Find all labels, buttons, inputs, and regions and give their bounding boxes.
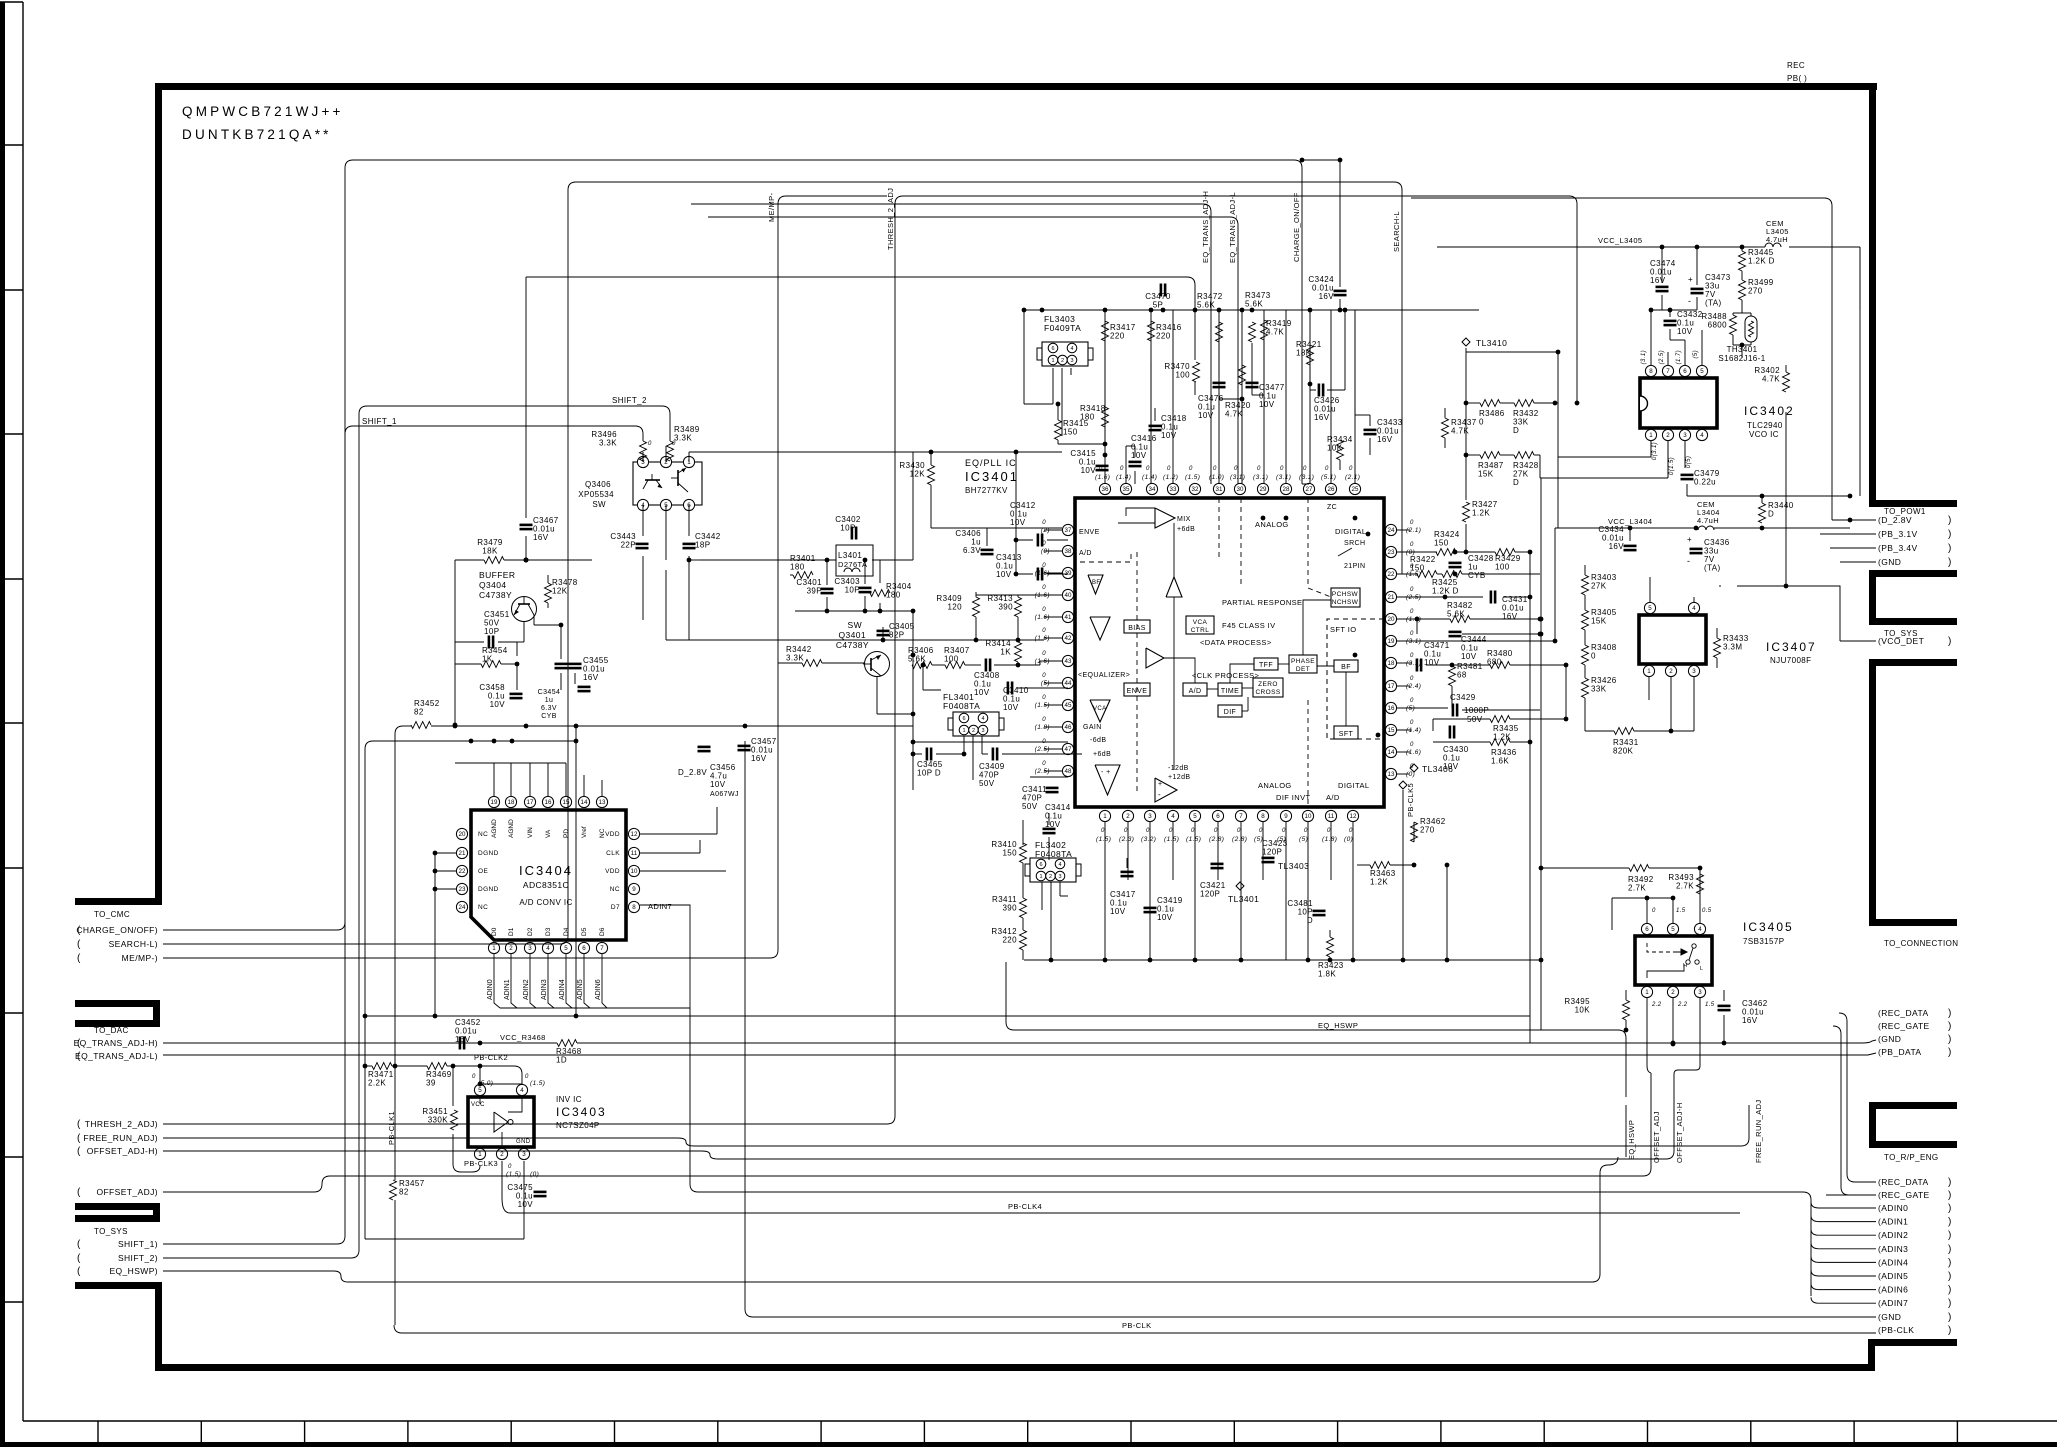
svg-text:NJU7008F: NJU7008F: [1770, 656, 1811, 665]
svg-text:4: 4: [520, 1087, 524, 1094]
svg-text:0: 0: [1282, 828, 1286, 834]
ruler left tick 7: [0, 1012, 23, 1014]
svg-text:5: 5: [1648, 605, 1652, 612]
wire c3408 to pin43: [1002, 664, 1040, 666]
wire c3414 row: [1048, 813, 1050, 825]
svg-text:21PIN: 21PIN: [1344, 563, 1365, 570]
wire IC3404 right: [640, 833, 717, 835]
svg-text:TO_DAC: TO_DAC: [94, 1026, 129, 1035]
svg-text:(: (: [77, 939, 81, 950]
wire r3403 taps: [1585, 611, 1620, 613]
svg-text:41: 41: [1065, 614, 1072, 621]
pin 1 IC3405 bottom: [1641, 986, 1652, 997]
svg-text:BF: BF: [1341, 664, 1351, 671]
wire c3465 row: [913, 753, 922, 755]
svg-text:6: 6: [1683, 368, 1687, 375]
inductor L3404: [1698, 526, 1714, 530]
wire r3415 col: [1057, 404, 1059, 420]
svg-text:1: 1: [1051, 358, 1054, 364]
svg-text:0: 0: [1410, 653, 1414, 659]
IC3401 dashed v4: [1307, 498, 1309, 588]
pin 2 IC3403 bottom: [496, 1148, 507, 1159]
svg-text:(ADIN1: (ADIN1: [1878, 1217, 1908, 1227]
svg-text:EQ_TRANS_ADJ-L: EQ_TRANS_ADJ-L: [1228, 192, 1237, 263]
svg-text:(1.6): (1.6): [1035, 658, 1050, 665]
wire GND mid: [559, 1044, 561, 1046]
wire EQ_TRANS riser L: [708, 216, 1230, 218]
wire rail160 right: [1302, 159, 1340, 161]
wire rail310 left: [1021, 310, 1023, 390]
svg-text:-12dB: -12dB: [1168, 765, 1189, 772]
wire ADIN7: [640, 905, 690, 1008]
svg-text:6: 6: [1051, 346, 1054, 352]
IC3401 PHASE DET box: [1289, 655, 1317, 673]
pin 9 IC3404 right: [628, 883, 639, 894]
wire c3405 col: [882, 627, 884, 640]
wire fl3401 branch: [922, 665, 924, 690]
svg-text:3: 3: [1058, 874, 1061, 880]
svg-text:0: 0: [525, 1074, 529, 1080]
svg-text:NC7SZ04P: NC7SZ04P: [556, 1121, 600, 1130]
pin 1 IC3407 bottom: [1643, 665, 1654, 676]
wire ADIN0 branch: [1811, 1202, 1819, 1208]
wire h198 loop: [1411, 197, 1824, 199]
svg-text:16V: 16V: [583, 673, 599, 682]
capacitor C3451: [488, 636, 491, 649]
svg-text:0: 0: [1042, 673, 1046, 679]
ruler bottom tick 4: [510, 1421, 512, 1442]
IC IC3405 body: [1635, 936, 1712, 985]
resistor R3468: [557, 1040, 577, 1047]
wire c3455 join: [560, 673, 562, 690]
svg-text:16V: 16V: [1377, 435, 1393, 444]
svg-text:0: 0: [1169, 828, 1173, 834]
pin 45 IC3401 left: [1062, 699, 1073, 710]
transistor Q3404 buffer: [512, 597, 537, 622]
capacitor C3481: [1313, 910, 1326, 913]
resistor R3429: [1495, 549, 1515, 556]
svg-text:10V: 10V: [1010, 518, 1026, 527]
ruler bottom thick bar: [0, 1442, 2057, 1447]
ruler bottom tick 16: [1750, 1421, 1752, 1442]
svg-text:0: 0: [1189, 466, 1193, 472]
wire vert913 top: [912, 452, 914, 560]
pin 3 IC3407 bottom: [1688, 665, 1699, 676]
svg-text:4.7K: 4.7K: [1266, 328, 1284, 337]
svg-text:330K: 330K: [428, 1116, 449, 1125]
resistor R3473: [1249, 322, 1256, 342]
wire c3415 col: [1101, 455, 1103, 461]
ruler left tick 5: [0, 722, 23, 724]
svg-text:(1.5): (1.5): [1035, 702, 1050, 709]
wire OFFSET_ADJ-H run: [163, 1150, 702, 1152]
svg-text:BH7277KV: BH7277KV: [965, 486, 1008, 495]
IC3401 dashed v2: [1218, 498, 1220, 560]
border TO_SYS right C: [1869, 570, 1957, 577]
svg-text:): ): [1948, 636, 1952, 647]
svg-text:1: 1: [1039, 874, 1042, 880]
IC3401 gain amp2: [1155, 778, 1177, 802]
pin 5 IC3405 top: [1667, 923, 1678, 934]
svg-text:(3.1): (3.1): [1641, 350, 1647, 364]
wire pin3 to adjh: [1699, 998, 1701, 1066]
svg-text:EQ_TRANS_ADJ-L): EQ_TRANS_ADJ-L): [75, 1051, 158, 1061]
capacitor C3473: [1691, 288, 1704, 291]
ruler left tick 0: [0, 1, 23, 3]
svg-text:<EQUALIZER>: <EQUALIZER>: [1078, 672, 1130, 679]
pin 13 IC3404 top: [596, 796, 607, 807]
svg-text:TO_CMC: TO_CMC: [94, 910, 130, 919]
svg-text:): ): [1948, 1203, 1952, 1214]
svg-text:3: 3: [1070, 358, 1073, 364]
wire ADIN1 drop: [511, 954, 517, 1008]
svg-text:9: 9: [632, 886, 636, 893]
svg-text:0: 0: [1042, 541, 1046, 547]
svg-text:): ): [1948, 543, 1952, 554]
wire c3430 row: [1433, 730, 1445, 732]
pin 14 IC3404 top: [578, 796, 589, 807]
svg-text:): ): [1948, 1271, 1952, 1282]
pin 43 IC3401 left: [1062, 655, 1073, 666]
wire r3470 col: [1194, 360, 1196, 362]
svg-text:120P: 120P: [1200, 890, 1220, 899]
svg-text:35: 35: [1123, 486, 1130, 493]
svg-text:0: 0: [1146, 828, 1150, 834]
svg-text:180: 180: [1080, 413, 1095, 422]
wire fl3403 drop: [1052, 390, 1054, 404]
svg-text:23: 23: [459, 886, 466, 893]
wire R3487 row wires: [1466, 454, 1480, 456]
ruler bottom tick 15: [1647, 1421, 1649, 1442]
resistor R3492: [1629, 865, 1649, 872]
border stub TO_POW1: [1869, 500, 1957, 507]
pin 12 IC3401 bottom: [1347, 810, 1358, 821]
svg-text:(1.6): (1.6): [1035, 614, 1050, 621]
pin 12 IC3404 right: [628, 828, 639, 839]
wire fl3403 stub: [1052, 368, 1054, 390]
svg-text:16V: 16V: [1314, 413, 1330, 422]
pin 3 IC3405 bottom: [1694, 986, 1705, 997]
svg-text:(5): (5): [1277, 836, 1286, 843]
svg-text:0: 0: [1101, 828, 1105, 834]
wire rec data2 drop: [1847, 1060, 1855, 1182]
pin 15 IC3404 top: [560, 796, 571, 807]
wire rail 160 right segment: [1340, 159, 1479, 161]
svg-text:EQ_HSWP: EQ_HSWP: [1318, 1021, 1358, 1030]
pin 38 IC3401 left: [1062, 545, 1073, 556]
svg-text:30: 30: [1237, 486, 1244, 493]
svg-text:SEARCH-L: SEARCH-L: [1392, 211, 1401, 252]
wire R3414 col: [1017, 641, 1019, 643]
svg-text:(3.1): (3.1): [1299, 474, 1314, 481]
wire PB_DATA mid: [599, 1052, 601, 1054]
testpoint TL3406: [1410, 764, 1418, 772]
svg-text:VCA: VCA: [1093, 706, 1107, 712]
pin 17 IC3401 right: [1385, 680, 1396, 691]
wire pin row feeds top: [1104, 310, 1106, 484]
svg-text:): ): [1948, 1325, 1952, 1336]
svg-text:(: (: [77, 1239, 81, 1250]
svg-text:0: 0: [1410, 631, 1414, 637]
svg-text:2: 2: [1669, 668, 1673, 675]
svg-text:GND: GND: [516, 1139, 531, 1145]
wire REC_GATE link: [1833, 1026, 1841, 1034]
capacitor C3402: [851, 527, 854, 540]
svg-text:6: 6: [962, 716, 965, 722]
wire c3423 col: [1267, 838, 1269, 854]
wire IC3401 right pin stubs: [1397, 529, 1410, 531]
pin 46 IC3401 left: [1062, 721, 1073, 732]
svg-text:0: 0: [1410, 764, 1414, 770]
wire TL3410 col: [1465, 348, 1467, 500]
wire vert 778 lower: [777, 204, 779, 640]
svg-text:EQ_HSWP: EQ_HSWP: [1627, 1120, 1636, 1160]
svg-text:PD: PD: [563, 829, 570, 838]
resistor R3489: [667, 441, 674, 461]
svg-text:NC: NC: [478, 831, 488, 838]
Q3406 transistor left: [645, 479, 660, 481]
svg-text:(1.7): (1.7): [1676, 350, 1682, 364]
svg-text:18: 18: [1388, 660, 1395, 667]
wire c3418 col: [1154, 408, 1156, 421]
svg-text:33: 33: [1170, 486, 1177, 493]
capacitor C3470: [1160, 284, 1163, 297]
wire REC pair up: [1847, 1012, 1876, 1014]
pin 16 IC3404 top: [542, 796, 553, 807]
svg-text:ADIN5: ADIN5: [577, 979, 584, 1000]
svg-text:(D_2.8V: (D_2.8V: [1878, 515, 1912, 525]
svg-text:15: 15: [1388, 727, 1395, 734]
svg-text:): ): [1948, 515, 1952, 526]
svg-text:IC3403: IC3403: [556, 1105, 607, 1119]
wire bus960: [1024, 959, 1542, 961]
svg-text:(3.1): (3.1): [1276, 474, 1291, 481]
svg-text:A/D: A/D: [1079, 550, 1092, 557]
svg-text:NCHSW: NCHSW: [1332, 599, 1359, 606]
resistor R3428: [1514, 452, 1534, 459]
svg-text:13: 13: [1388, 771, 1395, 778]
resistor R3427: [1463, 502, 1470, 522]
svg-text:(5): (5): [1406, 705, 1415, 712]
wire R3471 row: [365, 1065, 372, 1067]
svg-text:3: 3: [1698, 989, 1702, 996]
svg-text:4.7K: 4.7K: [1451, 427, 1469, 436]
wire ADIN5 branch: [1811, 1270, 1819, 1276]
wire fl3401 pins: [963, 736, 965, 754]
svg-text:13: 13: [599, 799, 606, 806]
svg-text:1: 1: [492, 945, 496, 952]
svg-text:(1.6): (1.6): [1035, 570, 1050, 577]
svg-text:PB-CLK2: PB-CLK2: [474, 1053, 508, 1062]
capacitor C3436: [1690, 548, 1703, 551]
svg-text:PB( ): PB( ): [1787, 74, 1807, 83]
svg-text:100: 100: [944, 655, 959, 664]
svg-text:10P: 10P: [484, 627, 499, 636]
wire r3402 link: [1785, 412, 1787, 586]
svg-text:0: 0: [1410, 720, 1414, 726]
wire c3426 link: [1310, 389, 1316, 391]
resistor R3418: [1102, 407, 1109, 427]
wire ic3407 feeds: [1585, 608, 1633, 650]
svg-text:(1.5): (1.5): [1186, 836, 1201, 843]
svg-text:10V: 10V: [1161, 431, 1177, 440]
ruler left tick 8: [0, 1156, 23, 1158]
svg-text:0: 0: [1042, 695, 1046, 701]
svg-text:820K: 820K: [1613, 747, 1634, 756]
svg-text:(1.5): (1.5): [1164, 836, 1179, 843]
transistor Q3406 body: [633, 462, 702, 505]
IC3401 ZERO CROSS box: [1253, 678, 1283, 697]
ruler left tick 9: [0, 1301, 23, 1303]
capacitor C3477: [1246, 382, 1259, 385]
resistor R3499: [1739, 280, 1746, 300]
svg-text:0: 0: [1146, 466, 1150, 472]
wire vert1555: [1554, 528, 1556, 641]
svg-text:): ): [1948, 1217, 1952, 1228]
wire ADIN3 drop: [548, 954, 554, 1008]
IC3401 B amp: [1146, 648, 1164, 668]
ruler left tick 4: [0, 578, 23, 580]
resistor R3414: [1015, 642, 1022, 662]
svg-text:F45 CLASS IV: F45 CLASS IV: [1222, 621, 1276, 630]
capacitor C3412: [1037, 534, 1040, 547]
wire pin1 to adj: [1646, 1065, 1648, 1067]
svg-text:1.2K: 1.2K: [1472, 509, 1490, 518]
capacitor C3423: [1262, 857, 1275, 860]
svg-text:0: 0: [1234, 466, 1238, 472]
capacitor C3413: [1037, 568, 1040, 581]
svg-text:27K: 27K: [1591, 582, 1607, 591]
wire C3452 row: [461, 1042, 463, 1044]
pin 1 IC3404 bottom: [488, 942, 499, 953]
ruler left tick 1: [0, 144, 23, 146]
svg-text:120: 120: [947, 603, 962, 612]
svg-text:7SB3157P: 7SB3157P: [1743, 937, 1784, 946]
ruler bottom tick 14: [1543, 1421, 1545, 1442]
svg-text:A/D: A/D: [1189, 688, 1202, 695]
wire r3437 col: [1444, 408, 1446, 418]
svg-text:38: 38: [1065, 548, 1072, 555]
capacitor C3432: [1664, 320, 1677, 323]
svg-text:5.6K: 5.6K: [1447, 610, 1465, 619]
resistor R3436: [1490, 739, 1510, 746]
svg-text:(2.8): (2.8): [1232, 836, 1247, 843]
IC3401 SFT box: [1334, 726, 1358, 739]
resistor R3451: [451, 1110, 458, 1130]
capacitor C3457: [738, 745, 751, 748]
wire to pow1 links: [1850, 519, 1876, 521]
svg-text:TL3403: TL3403: [1278, 861, 1309, 871]
svg-text:16V: 16V: [1502, 612, 1518, 621]
wire c3409 row: [973, 779, 1030, 781]
svg-text:Q3404: Q3404: [479, 580, 507, 590]
border stub TO_CMC: [75, 898, 162, 905]
resistor R3409: [973, 597, 980, 617]
resistor R3463: [1370, 862, 1390, 869]
IC IC3402 body: [1640, 378, 1717, 428]
wire c3444 row: [1416, 630, 1418, 634]
pin 31 IC3401 top: [1213, 483, 1224, 494]
svg-text:1.6K: 1.6K: [1491, 757, 1509, 766]
svg-text:SHIFT_2): SHIFT_2): [118, 1253, 158, 1263]
pin 4 IC3404 bottom: [542, 942, 553, 953]
svg-text:20: 20: [1388, 616, 1395, 623]
pin 4 IC3402 bottom: [1696, 429, 1707, 440]
wire q3406 right wire: [689, 451, 1016, 453]
svg-text:L3401: L3401: [838, 551, 862, 560]
svg-text:FREE_RUN_ADJ): FREE_RUN_ADJ): [83, 1133, 158, 1143]
svg-text:VCC: VCC: [471, 1102, 485, 1108]
wire ADIN4 drop: [566, 954, 572, 1008]
testpoint TL3401: [1236, 882, 1244, 890]
wire ADIN4 branch: [1811, 1256, 1819, 1262]
wire EQ_HSWP mid run: [1006, 962, 1626, 1038]
wire misc560: [688, 535, 690, 537]
wire ADIN6 drop: [602, 954, 607, 1008]
svg-text:0: 0: [1191, 828, 1195, 834]
pin 35 IC3401 top: [1120, 483, 1131, 494]
svg-text:2.2K: 2.2K: [368, 1079, 386, 1088]
pin 26 IC3401 top: [1325, 483, 1336, 494]
svg-text:6.3V: 6.3V: [541, 705, 557, 712]
svg-text:8: 8: [1649, 368, 1653, 375]
ruler bottom tick 6: [717, 1421, 719, 1442]
wire pin17 row: [1397, 685, 1530, 687]
svg-text:TO_SYS: TO_SYS: [94, 1227, 128, 1236]
wire adj drops: [1699, 997, 1701, 999]
svg-text:1.8K: 1.8K: [1318, 970, 1336, 979]
svg-text:PB-CLK3: PB-CLK3: [464, 1159, 498, 1168]
svg-text:EQ_TRANS_ADJ-H: EQ_TRANS_ADJ-H: [1201, 191, 1210, 263]
svg-text:0: 0: [1099, 466, 1103, 472]
resistor R3417: [1102, 321, 1109, 341]
wire ADIN bus run: [690, 1184, 698, 1192]
capacitor C3467: [520, 524, 533, 527]
resistor R3435: [1490, 716, 1510, 723]
svg-text:1: 1: [1647, 668, 1651, 675]
svg-text:+: +: [1688, 275, 1693, 284]
svg-text:5.6K: 5.6K: [1197, 301, 1215, 310]
resistor R3472: [1216, 322, 1223, 342]
capacitor C3430: [1449, 726, 1452, 739]
svg-text:(REC_GATE: (REC_GATE: [1878, 1190, 1930, 1200]
resistor R3434: [1337, 440, 1344, 460]
svg-text:3.3K: 3.3K: [786, 654, 804, 663]
svg-text:0: 0: [472, 1074, 476, 1080]
svg-text:IC3405: IC3405: [1743, 920, 1794, 934]
svg-text:0: 0: [1410, 542, 1414, 548]
svg-text:82: 82: [414, 708, 424, 717]
svg-text:0: 0: [1327, 828, 1331, 834]
IC3401 DIF box: [1218, 705, 1242, 717]
wire r3481 col: [1451, 665, 1453, 666]
svg-text:AGND: AGND: [508, 819, 515, 838]
resistor R3411: [1020, 898, 1027, 918]
wire sw collector: [688, 600, 690, 640]
wire pbclk2 row: [453, 1065, 514, 1067]
svg-text:100: 100: [1175, 371, 1190, 380]
svg-text:10V: 10V: [974, 688, 990, 697]
wire row611: [795, 610, 913, 612]
wire c3428 col: [1454, 552, 1456, 559]
svg-text:): ): [1948, 1008, 1952, 1019]
wire c3411 row: [1030, 776, 1068, 778]
pin 25 IC3401 top: [1349, 483, 1360, 494]
wire r3410 col: [1022, 843, 1024, 845]
svg-text:(1.8): (1.8): [1035, 724, 1050, 731]
svg-text:2: 2: [1049, 874, 1052, 880]
svg-text:6.3V: 6.3V: [963, 546, 981, 555]
